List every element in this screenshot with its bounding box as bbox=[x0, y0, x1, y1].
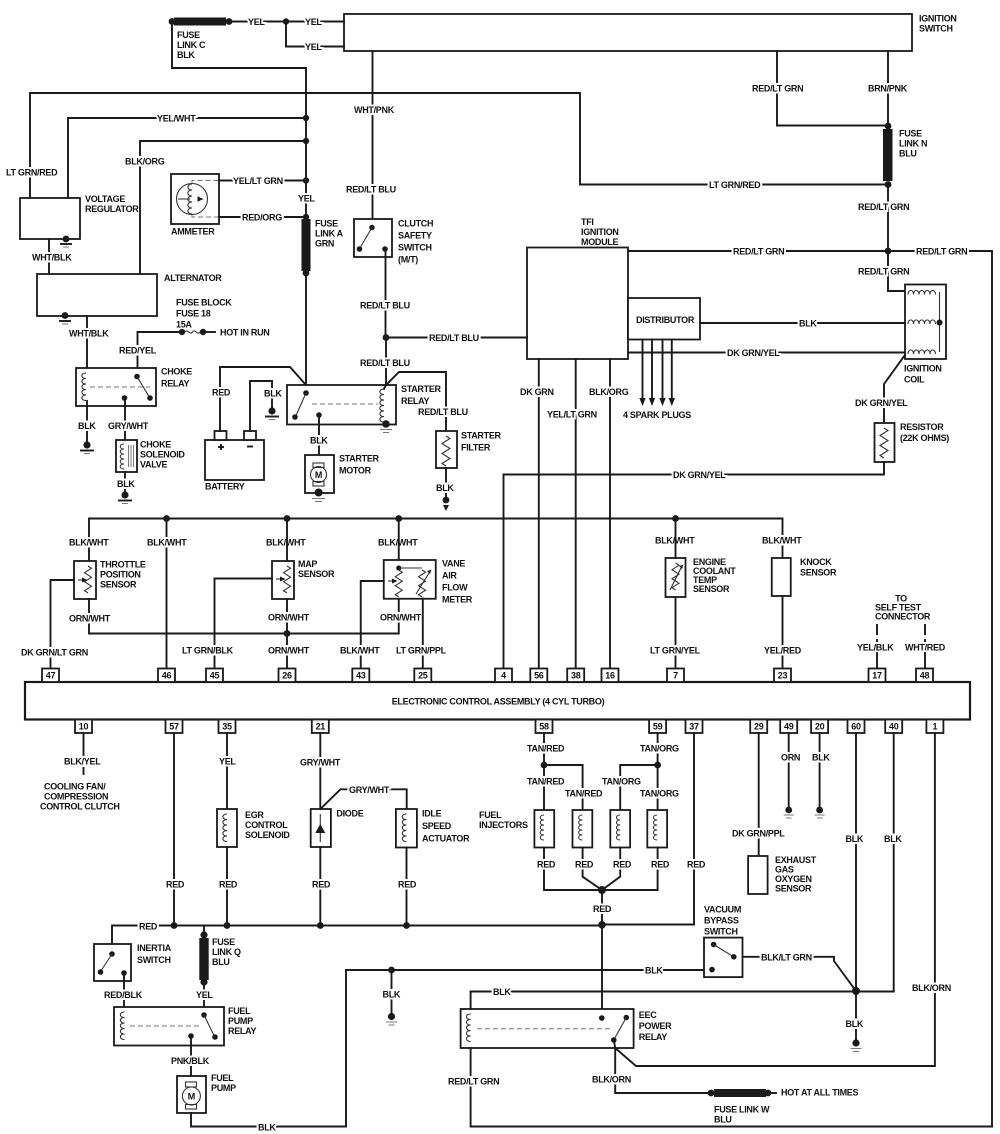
svg-text:FUEL: FUEL bbox=[211, 1073, 234, 1083]
svg-text:LINK N: LINK N bbox=[899, 139, 927, 149]
pin 29 bbox=[750, 720, 767, 734]
svg-text:M: M bbox=[315, 470, 322, 480]
svg-text:GRN: GRN bbox=[315, 239, 334, 249]
wire RED actuator to bus bbox=[398, 848, 417, 926]
svg-text:RED/YEL: RED/YEL bbox=[119, 346, 157, 356]
wire BLK ECA pin 20 to ground bbox=[812, 733, 830, 808]
wire TAN/ORG ECA pin 59 to injector 4 bbox=[640, 733, 679, 810]
svg-text:STARTER: STARTER bbox=[461, 431, 502, 441]
svg-text:BLU: BLU bbox=[899, 149, 917, 159]
wire RED diode to bus bbox=[312, 847, 331, 926]
svg-text:47: 47 bbox=[46, 671, 56, 681]
node TAN/RED branch bbox=[541, 762, 548, 769]
svg-text:RELAY: RELAY bbox=[228, 1026, 256, 1036]
wire BLK starter relay to starter motor bbox=[310, 416, 328, 455]
svg-text:LINK C: LINK C bbox=[177, 40, 206, 50]
wire RED injector 2 to merge bbox=[575, 848, 602, 891]
svg-text:BLK: BLK bbox=[812, 753, 830, 763]
svg-text:LT GRN/PPL: LT GRN/PPL bbox=[396, 646, 447, 656]
svg-text:YEL: YEL bbox=[298, 194, 315, 204]
pin 26 bbox=[279, 669, 296, 683]
wire BLK/ORG TFI to ECA pin 16 bbox=[589, 359, 629, 669]
wire BLK/WHT bus to ECT sensor bbox=[675, 519, 677, 559]
svg-text:CLUTCH: CLUTCH bbox=[398, 219, 433, 229]
svg-text:FUSE BLOCK: FUSE BLOCK bbox=[176, 298, 232, 308]
svg-text:ACTUATOR: ACTUATOR bbox=[422, 834, 470, 844]
svg-text:23: 23 bbox=[778, 671, 788, 681]
svg-text:PUMP: PUMP bbox=[228, 1016, 253, 1026]
svg-text:CHOKE: CHOKE bbox=[161, 367, 192, 377]
svg-text:SPEED: SPEED bbox=[422, 821, 452, 831]
pin 59 bbox=[649, 720, 666, 734]
svg-text:26: 26 bbox=[282, 671, 292, 681]
svg-text:KNOCK: KNOCK bbox=[800, 557, 832, 567]
svg-text:BLK: BLK bbox=[177, 50, 195, 60]
svg-text:BLK/YEL: BLK/YEL bbox=[64, 757, 101, 767]
voltage regulator bbox=[20, 194, 139, 239]
fuse link C bbox=[169, 18, 233, 61]
svg-text:VALVE: VALVE bbox=[140, 460, 167, 470]
svg-text:ORN/WHT: ORN/WHT bbox=[380, 613, 422, 623]
svg-text:(22K OHMS): (22K OHMS) bbox=[900, 433, 949, 443]
inertia switch bbox=[94, 943, 172, 981]
svg-text:38: 38 bbox=[571, 671, 581, 681]
svg-text:YEL: YEL bbox=[248, 17, 265, 27]
wire WHT/BLK alternator to choke relay bbox=[69, 316, 109, 372]
svg-text:ORN/WHT: ORN/WHT bbox=[268, 646, 310, 656]
node injector merge bbox=[598, 886, 606, 894]
wire RED injector 4 to merge bbox=[602, 848, 670, 891]
svg-text:GRY/WHT: GRY/WHT bbox=[349, 785, 390, 795]
wire DK GRN/YEL coil to resistor bbox=[855, 355, 908, 423]
vacuum bypass switch bbox=[704, 905, 743, 978]
pin 23 bbox=[774, 669, 791, 683]
svg-text:ELECTRONIC CONTROL ASSEMBLY (4: ELECTRONIC CONTROL ASSEMBLY (4 CYL TURBO… bbox=[392, 697, 605, 707]
svg-text:TAN/ORG: TAN/ORG bbox=[602, 777, 641, 787]
ignition coil bbox=[904, 285, 946, 385]
pin 10 bbox=[75, 720, 92, 734]
svg-text:SWITCH: SWITCH bbox=[919, 24, 953, 34]
svg-text:1: 1 bbox=[933, 722, 938, 732]
svg-text:THROTTLE: THROTTLE bbox=[100, 560, 146, 570]
throttle position sensor bbox=[74, 560, 146, 600]
svg-text:FUEL: FUEL bbox=[479, 810, 502, 820]
ground at battery bbox=[266, 407, 278, 419]
svg-text:RELAY: RELAY bbox=[639, 1032, 667, 1042]
svg-text:RED: RED bbox=[398, 880, 417, 890]
wire RED ECA pin 57 to bus bbox=[166, 733, 185, 926]
svg-text:POWER: POWER bbox=[639, 1021, 672, 1031]
svg-text:RED/LT GRN: RED/LT GRN bbox=[916, 247, 967, 257]
wire WHT/PNK ignition switch to clutch safety switch bbox=[346, 51, 396, 226]
svg-text:BLK: BLK bbox=[78, 421, 96, 431]
fuel injector 1 bbox=[534, 810, 554, 848]
wire YEL ECA pin 35 to EGR solenoid bbox=[219, 733, 236, 809]
pin 43 bbox=[352, 669, 369, 683]
svg-text:METER: METER bbox=[442, 595, 473, 605]
wire BLK battery to ground bbox=[250, 381, 282, 431]
wire ORN ECA pin 49 to ground bbox=[781, 733, 800, 808]
svg-text:BLK: BLK bbox=[310, 436, 328, 446]
ground at starter filter bbox=[443, 497, 450, 511]
svg-text:21: 21 bbox=[316, 722, 326, 732]
svg-text:WHT/BLK: WHT/BLK bbox=[32, 253, 72, 263]
svg-text:DIODE: DIODE bbox=[336, 809, 363, 819]
node YEL/WHT junction bbox=[303, 115, 309, 121]
svg-text:MOTOR: MOTOR bbox=[339, 466, 372, 476]
svg-text:DISTRIBUTOR: DISTRIBUTOR bbox=[636, 315, 695, 325]
svg-text:BLK/WHT: BLK/WHT bbox=[762, 536, 802, 546]
svg-text:LT GRN/RED: LT GRN/RED bbox=[6, 168, 58, 178]
pin 16 bbox=[602, 669, 619, 683]
engine coolant temp sensor bbox=[666, 557, 737, 597]
wire RED/LT GRN junction to right rail bbox=[888, 247, 992, 1127]
svg-text:YEL/BLK: YEL/BLK bbox=[857, 643, 894, 653]
svg-text:16: 16 bbox=[605, 671, 615, 681]
svg-text:AIR: AIR bbox=[442, 571, 457, 581]
svg-text:PNK/BLK: PNK/BLK bbox=[171, 1056, 210, 1066]
pin 4 bbox=[495, 669, 512, 683]
wire RED injector 3 to merge bbox=[602, 848, 632, 891]
svg-text:BYPASS: BYPASS bbox=[704, 916, 739, 926]
svg-text:IGNITION: IGNITION bbox=[581, 227, 619, 237]
wire BLK distributor to coil bbox=[700, 319, 905, 329]
label fuel injectors bbox=[479, 810, 528, 830]
svg-text:DK GRN/PPL: DK GRN/PPL bbox=[732, 829, 785, 839]
svg-text:FUSE LINK W: FUSE LINK W bbox=[714, 1105, 770, 1115]
svg-text:BLK: BLK bbox=[645, 966, 663, 976]
TFI ignition module U1 bbox=[527, 217, 628, 359]
wire GRY/WHT ECA pin 21 to diode bbox=[300, 733, 341, 809]
svg-text:INERTIA: INERTIA bbox=[137, 943, 172, 953]
node BLK junction at pin 60 wire bbox=[852, 987, 860, 995]
svg-text:RELAY: RELAY bbox=[401, 396, 429, 406]
svg-text:GRY/WHT: GRY/WHT bbox=[108, 421, 149, 431]
starter motor M1 bbox=[305, 454, 380, 494]
svg-text:YEL: YEL bbox=[196, 990, 213, 1000]
node RED/ORG junction bbox=[303, 214, 309, 220]
svg-text:RED: RED bbox=[575, 860, 594, 870]
choke relay K1 bbox=[76, 367, 192, 407]
svg-text:DK GRN/YEL: DK GRN/YEL bbox=[727, 348, 780, 358]
ground at starter motor bbox=[312, 489, 325, 502]
node TAN/ORG branch bbox=[654, 762, 661, 769]
svg-text:FLOW: FLOW bbox=[442, 583, 468, 593]
knock sensor bbox=[772, 557, 837, 596]
resistor R1 22K OHMS bbox=[875, 422, 950, 462]
svg-text:STARTER: STARTER bbox=[339, 454, 380, 464]
svg-text:RED/LT BLU: RED/LT BLU bbox=[429, 333, 479, 343]
svg-text:HOT AT ALL TIMES: HOT AT ALL TIMES bbox=[781, 1088, 858, 1098]
svg-text:IGNITION: IGNITION bbox=[919, 14, 957, 24]
ammeter bbox=[171, 174, 219, 237]
svg-text:REGULATOR: REGULATOR bbox=[85, 204, 139, 214]
svg-text:46: 46 bbox=[162, 671, 172, 681]
svg-text:FUSE: FUSE bbox=[177, 30, 200, 40]
wire RED/LT BLU junction to TFI bbox=[386, 333, 527, 343]
svg-text:BLU: BLU bbox=[714, 1115, 732, 1125]
svg-text:20: 20 bbox=[815, 722, 825, 732]
svg-text:RED/BLK: RED/BLK bbox=[104, 990, 143, 1000]
svg-text:DK GRN/YEL: DK GRN/YEL bbox=[855, 398, 908, 408]
svg-text:RED: RED bbox=[212, 388, 231, 398]
wire GRY/WHT choke relay to solenoid bbox=[108, 399, 149, 440]
wire RED injector 1 to merge bbox=[537, 848, 602, 891]
pin 47 bbox=[42, 669, 59, 683]
ground at starter relay coil bbox=[380, 420, 392, 432]
wire BLK ECA pin 40 down bbox=[471, 733, 903, 997]
svg-text:DK GRN: DK GRN bbox=[520, 387, 554, 397]
wire RED merge to bus bbox=[593, 890, 612, 926]
svg-text:RED: RED bbox=[613, 860, 632, 870]
fuel injector 4 bbox=[647, 810, 667, 848]
wire RED battery to starter relay bbox=[212, 367, 306, 431]
svg-text:FUSE: FUSE bbox=[315, 219, 338, 229]
svg-text:SOLENOID: SOLENOID bbox=[140, 450, 185, 460]
svg-text:37: 37 bbox=[689, 722, 699, 732]
wire YEL fuse link C to ignition switch bbox=[232, 17, 344, 27]
svg-text:RED: RED bbox=[219, 880, 238, 890]
pin 58 bbox=[536, 720, 553, 734]
svg-text:FUSE: FUSE bbox=[899, 129, 922, 139]
svg-text:BLK: BLK bbox=[264, 389, 282, 399]
wire WHT/RED to ECA pin 48 bbox=[905, 643, 946, 669]
svg-text:LT GRN/YEL: LT GRN/YEL bbox=[650, 646, 701, 656]
svg-text:YEL/LT GRN: YEL/LT GRN bbox=[547, 410, 597, 420]
svg-text:COMPRESSION: COMPRESSION bbox=[44, 792, 108, 802]
pin 56 bbox=[530, 669, 547, 683]
svg-text:BLK: BLK bbox=[436, 483, 454, 493]
svg-text:ALTERNATOR: ALTERNATOR bbox=[164, 273, 222, 283]
node YEL branch bbox=[283, 18, 289, 24]
wire DK GRN/YEL distributor to coil bbox=[628, 348, 904, 358]
node YEL/LT GRN junction bbox=[303, 177, 309, 183]
svg-text:SAFETY: SAFETY bbox=[398, 231, 432, 241]
fuse link N bbox=[883, 123, 927, 188]
wire BLK/ORN ECA pin 1 to EEC relay bbox=[615, 733, 951, 1066]
svg-text:SENSOR: SENSOR bbox=[298, 569, 335, 579]
svg-text:IDLE: IDLE bbox=[422, 809, 442, 819]
wire BLK from fuse link C down and across bbox=[172, 24, 306, 219]
pin 37 bbox=[686, 720, 703, 734]
svg-text:IGNITION: IGNITION bbox=[904, 364, 942, 374]
svg-text:YEL: YEL bbox=[305, 42, 322, 52]
svg-text:17: 17 bbox=[872, 671, 882, 681]
svg-text:15A: 15A bbox=[176, 320, 192, 330]
svg-text:RED/LT GRN: RED/LT GRN bbox=[858, 267, 909, 277]
pin 35 bbox=[219, 720, 236, 734]
pin 45 bbox=[206, 669, 223, 683]
svg-text:RELAY: RELAY bbox=[161, 379, 189, 389]
svg-text:56: 56 bbox=[534, 671, 544, 681]
svg-text:CONTROL CLUTCH: CONTROL CLUTCH bbox=[40, 802, 120, 812]
svg-text:YEL/WHT: YEL/WHT bbox=[157, 114, 196, 124]
wire BLK/WHT bus to ECA pin 46 bbox=[147, 519, 187, 669]
svg-text:EEC: EEC bbox=[639, 1010, 657, 1020]
wire PNK/BLK relay to fuel pump bbox=[171, 1037, 210, 1076]
wire BLK/LT GRN vacuum switch to junction bbox=[743, 952, 857, 991]
wire RED/BLK inertia switch to fuel pump relay bbox=[104, 974, 143, 1007]
svg-text:RED: RED bbox=[651, 860, 670, 870]
pin 40 bbox=[885, 720, 902, 734]
EEC power relay K4 bbox=[461, 1009, 673, 1048]
ground at pin 60 wire bbox=[851, 1039, 862, 1051]
svg-text:GRY/WHT: GRY/WHT bbox=[300, 758, 341, 768]
node bus to pin 46 bbox=[163, 515, 170, 522]
node RED bus junctions bbox=[171, 922, 178, 929]
wire ORN/WHT bus to ECA pin 26 bbox=[268, 634, 310, 669]
svg-text:59: 59 bbox=[653, 722, 663, 732]
svg-text:BLK/ORG: BLK/ORG bbox=[125, 157, 165, 167]
svg-text:45: 45 bbox=[210, 671, 220, 681]
svg-text:YEL/LT GRN: YEL/LT GRN bbox=[233, 176, 283, 186]
svg-text:MODULE: MODULE bbox=[581, 237, 618, 247]
svg-text:RED/LT BLU: RED/LT BLU bbox=[360, 358, 410, 368]
fuel pump relay K3 bbox=[114, 1006, 256, 1046]
wire BLK/YEL ECA pin 10 to cooling fan bbox=[64, 733, 101, 778]
wire BLK/WHT bus to VAF meter bbox=[398, 519, 400, 561]
svg-text:BLK: BLK bbox=[799, 319, 817, 329]
wire BLK fuel pump to vacuum bypass switch bbox=[191, 966, 704, 1133]
choke solenoid valve bbox=[116, 440, 185, 473]
wire RED main bus bbox=[112, 922, 602, 954]
wire YEL/BLK to ECA pin 17 bbox=[857, 643, 894, 669]
fuse block label and HOT IN RUN feed bbox=[119, 298, 270, 376]
wire RED/LT GRN fuse N to junction bbox=[858, 185, 909, 252]
svg-text:RED/LT BLU: RED/LT BLU bbox=[360, 301, 410, 311]
ground at choke relay bbox=[81, 441, 93, 453]
svg-text:RED/LT GRN: RED/LT GRN bbox=[752, 84, 803, 94]
wire BLK/WHT sensor supply bus bbox=[89, 519, 783, 562]
node BLK ground stub junction bbox=[388, 967, 395, 974]
wire BLK choke relay to ground bbox=[78, 401, 96, 443]
wire RED/LT BLU clutch switch down bbox=[360, 250, 410, 385]
svg-text:COIL: COIL bbox=[904, 375, 925, 385]
svg-text:SENSOR: SENSOR bbox=[100, 580, 137, 590]
svg-text:LINK A: LINK A bbox=[315, 229, 344, 239]
svg-text:WHT/PNK: WHT/PNK bbox=[354, 105, 395, 115]
wire RED EGR solenoid to bus bbox=[219, 847, 238, 926]
svg-text:TFI: TFI bbox=[581, 217, 594, 227]
wire ORN/WHT MAP to bus bbox=[268, 599, 310, 634]
node bus to MAP sensor bbox=[284, 515, 291, 522]
svg-text:TAN/RED: TAN/RED bbox=[527, 744, 565, 754]
svg-text:43: 43 bbox=[356, 671, 366, 681]
fuse link A bbox=[302, 219, 344, 277]
ground at choke solenoid bbox=[119, 491, 131, 503]
wire BLK ECA pin 60 down bbox=[846, 733, 864, 1041]
svg-text:VACUUM: VACUUM bbox=[704, 905, 741, 915]
svg-text:RED/LT GRN: RED/LT GRN bbox=[448, 1077, 499, 1087]
wire LT GRN/BLK MAP to ECA pin 45 bbox=[182, 579, 272, 669]
svg-text:LT GRN/RED: LT GRN/RED bbox=[709, 180, 761, 190]
svg-text:RED: RED bbox=[139, 922, 158, 932]
svg-text:RED: RED bbox=[312, 880, 331, 890]
svg-text:STARTER: STARTER bbox=[401, 384, 442, 394]
svg-text:TAN/RED: TAN/RED bbox=[527, 777, 565, 787]
svg-text:RED/LT GRN: RED/LT GRN bbox=[733, 247, 784, 257]
pin 57 bbox=[166, 720, 183, 734]
svg-text:SENSOR: SENSOR bbox=[800, 568, 837, 578]
svg-text:BLK: BLK bbox=[493, 987, 511, 997]
svg-text:RED: RED bbox=[687, 860, 706, 870]
svg-text:BATTERY: BATTERY bbox=[205, 482, 245, 492]
svg-text:BLU: BLU bbox=[212, 957, 230, 967]
svg-text:MAP: MAP bbox=[298, 559, 317, 569]
svg-text:RED: RED bbox=[166, 880, 185, 890]
svg-text:SWITCH: SWITCH bbox=[137, 955, 171, 965]
svg-text:LT GRN/BLK: LT GRN/BLK bbox=[182, 646, 234, 656]
node bus to ECT sensor bbox=[672, 515, 679, 522]
node bus to VAF meter bbox=[395, 515, 402, 522]
svg-text:M: M bbox=[188, 1092, 195, 1102]
wire RED/LT GRN EEC relay coil to right rail bbox=[448, 1048, 992, 1127]
svg-text:RED/LT BLU: RED/LT BLU bbox=[418, 407, 468, 417]
wire RED/LT BLU to starter filter bbox=[386, 372, 468, 431]
svg-text:SENSOR: SENSOR bbox=[693, 584, 730, 594]
svg-text:10: 10 bbox=[79, 722, 89, 732]
electronic control assembly ECA bbox=[25, 682, 970, 720]
wire BLK starter filter to ground bbox=[436, 468, 454, 498]
fuel pump M2 bbox=[177, 1073, 236, 1113]
svg-text:RED/LT BLU: RED/LT BLU bbox=[346, 185, 396, 195]
wire DK GRN/PPL ECA pin 29 to EGO sensor bbox=[732, 733, 785, 856]
wire BLK/WHT VAF to ECA pin 43 bbox=[340, 581, 384, 669]
wire YEL/RED knock sensor to ECA pin 23 bbox=[764, 596, 802, 669]
wire LT GRN/YEL ECT to ECA pin 7 bbox=[650, 597, 701, 669]
pin 49 bbox=[780, 720, 797, 734]
ground at voltage regulator bbox=[61, 236, 71, 247]
svg-text:BLK: BLK bbox=[117, 479, 135, 489]
svg-text:VANE: VANE bbox=[442, 559, 465, 569]
svg-text:BLK/WHT: BLK/WHT bbox=[340, 646, 380, 656]
wire BLK stub to ground bbox=[383, 970, 401, 1014]
pin 17 bbox=[869, 669, 886, 683]
svg-text:AMMETER: AMMETER bbox=[171, 227, 215, 237]
svg-text:FUEL: FUEL bbox=[228, 1006, 251, 1016]
wire ORN/WHT TPS to bus bbox=[69, 599, 287, 634]
wire YEL fuse link Q to fuel pump relay bbox=[196, 982, 213, 1014]
exhaust gas oxygen sensor bbox=[748, 855, 817, 894]
wire fuse link A to starter relay bbox=[305, 273, 307, 392]
wire BLK junction to EEC relay coil bbox=[856, 991, 894, 993]
svg-text:BLK/ORN: BLK/ORN bbox=[592, 1075, 631, 1085]
wire YEL/LT GRN TFI to ECA pin 38 bbox=[547, 359, 597, 669]
fuse link Q bbox=[199, 926, 241, 986]
wire BLK/ORN EEC relay to fuse link W bbox=[592, 1040, 708, 1093]
svg-text:49: 49 bbox=[784, 722, 794, 732]
node RED/LT GRN junction bbox=[885, 248, 892, 255]
EGR control solenoid bbox=[217, 809, 290, 847]
svg-text:TAN/ORG: TAN/ORG bbox=[640, 744, 679, 754]
svg-text:PUMP: PUMP bbox=[211, 1083, 236, 1093]
wire TAN/RED branch to injector 2 bbox=[544, 765, 603, 810]
ground at pin 49 bbox=[784, 807, 794, 818]
wire RED/LT GRN from ignition switch bbox=[752, 51, 888, 126]
wire GRY/WHT diode to idle speed actuator bbox=[320, 785, 406, 809]
svg-text:HOT IN RUN: HOT IN RUN bbox=[220, 328, 270, 338]
svg-text:(M/T): (M/T) bbox=[398, 255, 418, 265]
svg-text:VOLTAGE: VOLTAGE bbox=[85, 194, 125, 204]
svg-text:4 SPARK PLUGS: 4 SPARK PLUGS bbox=[623, 410, 691, 420]
wire RED ECA pin 37 to bus bbox=[602, 733, 706, 925]
svg-text:BLK/WHT: BLK/WHT bbox=[69, 538, 109, 548]
svg-text:BRN/PNK: BRN/PNK bbox=[868, 84, 908, 94]
svg-text:COOLING FAN/: COOLING FAN/ bbox=[44, 782, 106, 792]
svg-text:48: 48 bbox=[920, 671, 930, 681]
wire BRN/PNK from ignition switch bbox=[868, 51, 908, 126]
pin 20 bbox=[811, 720, 828, 734]
